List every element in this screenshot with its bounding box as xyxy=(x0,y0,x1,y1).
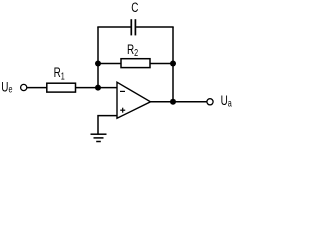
junction node A (input rail / left rail) xyxy=(95,85,101,91)
op-amp non-inverting input marker (plus) xyxy=(120,109,125,111)
junction node (output / right rail) xyxy=(170,99,176,105)
junction node (right rail / R2) xyxy=(170,61,176,67)
op-amp inverting input marker (minus) xyxy=(120,90,125,92)
node Ue input terminal xyxy=(21,84,27,90)
label R1 xyxy=(54,64,65,81)
label Ua xyxy=(221,93,232,109)
label R2 xyxy=(127,42,138,59)
wire op-amp non-inverting input to ground xyxy=(98,116,118,134)
wire right rail vertical xyxy=(172,27,174,102)
wire top rail right (capacitor to right rail) xyxy=(136,26,174,28)
wire left rail vertical xyxy=(97,27,99,88)
wire R2 right xyxy=(150,63,173,65)
label C xyxy=(131,0,138,15)
resistor R2 xyxy=(121,59,150,68)
junction node (left rail / R2) xyxy=(95,61,101,67)
svg-text:C: C xyxy=(131,0,138,15)
op-amp U1 xyxy=(117,82,151,118)
wire R1 to op-amp inverting input xyxy=(76,87,118,89)
wire R2 left xyxy=(98,63,121,65)
wire top rail left (to capacitor) xyxy=(97,26,130,28)
resistor R1 xyxy=(47,83,76,92)
wire Ue to R1 xyxy=(27,87,47,89)
node Ua output terminal xyxy=(207,99,213,105)
wire op-amp output xyxy=(150,101,207,103)
capacitor C xyxy=(130,19,132,35)
ground xyxy=(91,133,107,135)
label Ue xyxy=(1,79,12,95)
